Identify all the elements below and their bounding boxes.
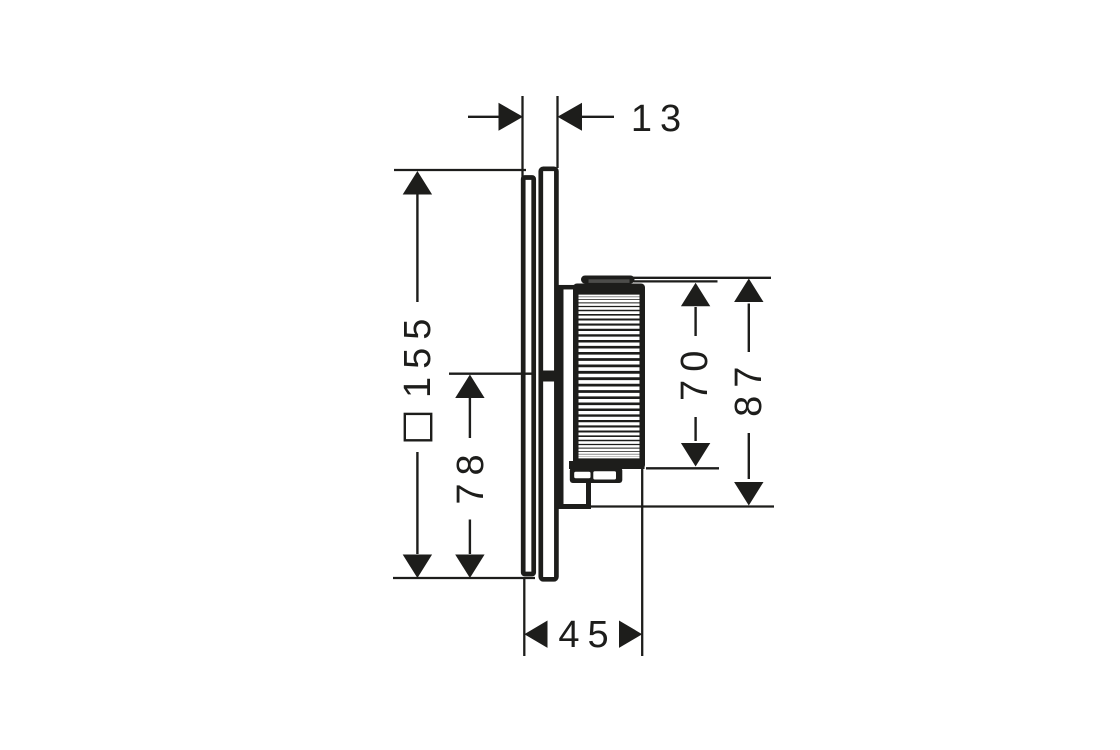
dim 155: extension lines <box>394 169 526 171</box>
svg-text:45: 45 <box>558 614 616 656</box>
svg-text:155: 155 <box>397 311 439 398</box>
dim 70 bottom extension <box>646 467 719 469</box>
dim 13: right leader + arrow <box>582 116 615 118</box>
dim 70 top extension <box>634 280 718 282</box>
dim 155: line + arrows <box>416 193 418 302</box>
knob knurling hatch <box>579 295 640 297</box>
knob body <box>573 284 645 470</box>
wall plate (thin back plate) <box>523 178 534 575</box>
dim 87: line + arrows <box>748 304 750 353</box>
dim 87 top extension <box>632 277 771 279</box>
sleeve top connector <box>559 285 575 290</box>
svg-text:78: 78 <box>450 446 492 504</box>
svg-text:70: 70 <box>674 343 716 401</box>
plate marker tab <box>540 371 558 382</box>
square symbol <box>405 414 431 440</box>
dim 78: extension line <box>449 373 536 375</box>
dim 78: line + arrows <box>469 397 471 438</box>
knob cap <box>583 278 633 282</box>
knob bottom flange <box>569 461 645 469</box>
escutcheon plate <box>541 169 557 580</box>
dim 70: line + arrows <box>694 307 696 336</box>
stem step block <box>570 468 623 484</box>
dim 45: arrows <box>524 621 547 648</box>
step slot left <box>574 472 590 478</box>
step slot right <box>593 471 616 479</box>
svg-text:87: 87 <box>728 359 770 417</box>
dim 13: extension lines <box>521 96 523 180</box>
sleeve bottom L <box>559 504 592 509</box>
dim 45: extension lines <box>523 578 525 656</box>
svg-text:13: 13 <box>631 98 689 140</box>
dim 13: left leader + arrow <box>468 116 500 118</box>
dim 87 bottom extension <box>591 505 774 507</box>
valve sleeve line <box>559 286 564 507</box>
